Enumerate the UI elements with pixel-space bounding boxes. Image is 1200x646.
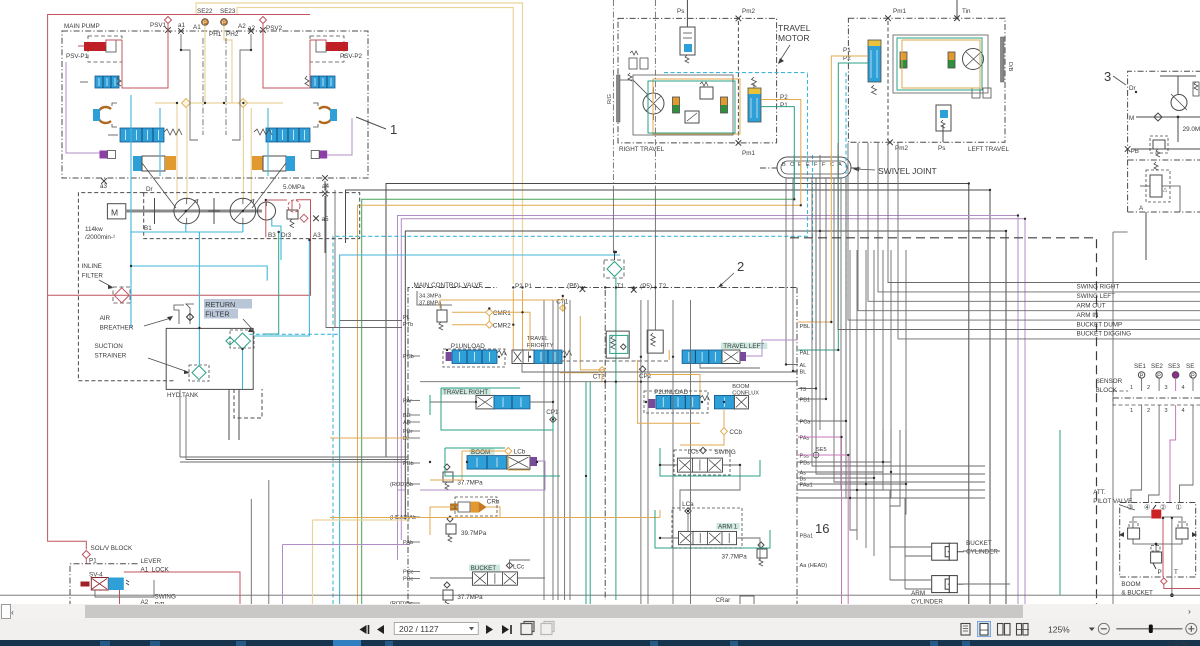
svg-text:29.0M: 29.0M [1183,126,1200,133]
Pm2 port top [736,8,756,140]
regulator right small valve [305,76,335,88]
nav last page [502,625,511,634]
mcv arm links [660,514,760,560]
mcv left port stubs [408,356,420,603]
solv red A1 line [120,572,241,604]
att P T ports [1158,569,1179,576]
svg-text:F: F [814,162,818,168]
bundle right fan lines [812,178,985,498]
svg-text:37.7MPa: 37.7MPa [457,480,483,487]
toolbar [0,619,1200,640]
svg-text:CCb: CCb [729,429,742,436]
svg-text:E: E [798,162,802,168]
svg-text:1: 1 [1130,408,1133,414]
main pump label [64,23,100,30]
PSV1 label [150,17,172,33]
svg-text:CMR1: CMR1 [493,310,511,317]
cyan big return rect [131,95,267,281]
svg-text:‹: ‹ [11,607,14,617]
regulator left small valve [80,76,121,88]
mcv dashed mid horizontal [420,361,797,382]
nav next page [486,625,493,634]
tank bottom drain dashed [229,389,262,440]
svg-text:37.7MPa: 37.7MPa [457,594,483,601]
travel motor label [778,23,811,64]
svg-text:SE23: SE23 [220,8,236,15]
svg-text:Aa (HEAD): Aa (HEAD) [800,563,828,569]
mcv travel right net [430,395,553,415]
svg-text:Ps: Ps [677,8,684,15]
svg-text:T2: T2 [659,283,667,290]
sensor numbers row1 [1130,385,1185,391]
svg-text:4: 4 [1182,408,1185,414]
rt travel speed valve blue [748,77,761,122]
pump center dashdot [203,38,226,135]
svg-text:PAL: PAL [800,351,810,357]
solv border [70,564,138,604]
suction strainer symbol [189,365,209,381]
nav prev page [377,625,384,634]
SV-4 valve [81,578,130,591]
svg-text:1:13 PM: 1:13 PM [1168,642,1189,646]
motor M box [107,204,125,219]
orange stub into mcv left [330,437,408,439]
servo link lines left [142,142,176,208]
solv label [91,545,133,552]
block3 M line [1129,113,1200,122]
relief small top left [437,305,447,330]
svg-text:BUCKET DUMP: BUCKET DUMP [1077,321,1123,328]
BOOM valve [467,448,537,470]
svg-text:BUCKET: BUCKET [471,565,497,572]
return filter symbol [226,330,254,349]
swivel joint label [853,166,937,176]
layout icon two-up cover [1016,624,1029,636]
svg-text:PTb: PTb [403,322,413,328]
rt tan inner box [653,79,740,134]
ARM1 valve [679,523,740,545]
wire yellow top feeds P1 P2 [196,3,523,284]
wire yellow pump riser left [177,103,187,200]
lt P1 P2 labels [843,47,851,62]
SE22 sensor [197,8,213,27]
pump bottom ports [100,175,330,190]
svg-text:34.3MPa: 34.3MPa [419,294,442,300]
page number box [394,623,478,635]
BOOM CONFLUX [714,384,759,409]
outer dashed boundary [78,193,173,381]
svg-text:37.8MPa: 37.8MPa [419,301,442,307]
svg-text:(P5): (P5) [640,283,652,290]
svg-text:37.7MPa: 37.7MPa [722,554,748,561]
purple riser near solv [283,545,411,605]
block3 dashdot mid [1128,159,1200,161]
pilot relief a5 [287,200,329,228]
CMR1 CMR2 [486,309,511,330]
svg-text:LCa: LCa [682,501,694,508]
block3 pump circle [1171,94,1187,111]
P2UNLOAD [648,389,709,409]
svg-text:A2: A2 [238,23,246,30]
yellow riser near solv [313,520,411,604]
svg-text:1: 1 [1130,385,1133,391]
SE4 sensor [1186,363,1196,379]
block3 relief [1150,136,1168,157]
att pilot valve label [1093,489,1135,510]
svg-text:PSV-P2: PSV-P2 [340,53,363,60]
TRAVEL PRIORITY [512,336,572,364]
lt port plate [1001,37,1014,82]
right purple box [311,151,327,159]
bus gray outer [346,190,991,604]
svg-text:SWING LEFT: SWING LEFT [1077,293,1116,300]
svg-text:16: 16 [815,521,829,536]
svg-text:125%: 125% [1048,625,1070,635]
lt accumulators [900,52,955,68]
svg-text:BR: BR [403,413,411,419]
svg-text:T: T [1174,569,1178,576]
rt center valve [685,111,699,123]
SE1 sensor [1134,363,1146,379]
svg-text:39.7MPa: 39.7MPa [461,530,487,537]
right main servo valve [254,128,310,142]
zoom slider [1116,625,1182,634]
svg-text:Pm1: Pm1 [893,8,906,15]
staircase to bucket cyl [883,430,905,556]
att circled numbers [1127,503,1182,512]
solv P1 [89,558,97,565]
svg-text:△: △ [1163,187,1168,193]
svg-text:PL: PL [403,315,410,321]
block3 dashed supply [790,238,1097,604]
svg-text:BUCKET: BUCKET [966,540,992,547]
svg-text:CMR2: CMR2 [493,322,511,329]
Dr B1 labels [144,184,321,239]
svg-text:a3: a3 [100,183,108,190]
block3 lower valve [1140,162,1180,212]
solv gray drain [95,580,154,597]
mcv teal boom frame [445,448,560,476]
rt upper center box [700,82,713,99]
svg-text:C: C [830,162,834,168]
svg-text:TRAVEL LEFT: TRAVEL LEFT [723,343,764,350]
block3 shaft [1160,76,1199,96]
svg-text:③: ③ [1127,503,1133,512]
travel feed green right [761,107,794,200]
sensor drop lines [205,26,232,104]
svg-text:BL: BL [800,370,807,376]
svg-text:4: 4 [1182,385,1185,391]
rt accumulator left [673,97,680,113]
label 3 [1104,69,1126,85]
SE2 sensor [1151,363,1163,379]
svg-text:Pm2: Pm2 [895,145,908,152]
svg-text:202 / 1127: 202 / 1127 [399,624,439,634]
block3 PB port [1125,146,1200,155]
cyan dashed into tank [249,333,340,335]
rt port plate [607,75,620,122]
svg-text:SWING: SWING [155,594,176,601]
svg-text:P: P [1158,569,1162,576]
svg-text:LEVER: LEVER [141,558,162,565]
SV-4 label [89,572,103,579]
svg-text:Dr: Dr [403,436,409,442]
label 2 leader [718,259,744,288]
label 1 leader [356,117,397,137]
37.7MPa boom [443,464,483,490]
dashed valve frames [443,349,742,548]
svg-text:PH2: PH2 [226,31,239,38]
svg-text:B3: B3 [268,232,276,239]
CRar [716,596,755,605]
svg-text:PCc: PCc [403,570,414,576]
svg-text:SE3: SE3 [1168,363,1180,370]
svg-text:FILTER: FILTER [205,310,229,319]
relief valve mid2 [647,330,663,353]
lt motor circle [963,49,984,70]
svg-text:Pm2: Pm2 [742,8,755,15]
att bottom valve [1151,546,1162,570]
svg-text:LCc: LCc [513,564,524,571]
mcv teal arm frame [655,510,770,548]
inline filter [82,263,130,303]
lt Tin port [954,0,971,21]
red pump drain lines [266,200,292,237]
bus green elbow [362,199,795,604]
wire yellow pump riser right [243,103,251,200]
svg-text:HYD.TANK: HYD.TANK [167,392,199,399]
svg-text:ARM IN: ARM IN [1077,312,1099,319]
svg-text:3: 3 [1104,69,1111,84]
svg-text:PB1: PB1 [800,398,811,404]
label 16 [815,521,829,536]
lt orange feed [798,56,868,322]
svg-text:PAa1: PAa1 [800,483,813,489]
bus purple elbow B [401,219,1025,604]
mcv orange lcb riser [430,451,530,480]
svg-text:PH1: PH1 [209,31,222,38]
svg-text:SENSOR: SENSOR [1096,378,1123,385]
left pump C element [93,103,117,127]
mcv center verticals gray [544,300,570,600]
mcv orange crb net [430,507,500,535]
svg-text:R/G: R/G [607,94,613,104]
cyan dashed pilot through [664,72,808,74]
svg-text:RETURN: RETURN [205,300,235,309]
svg-text:114kw: 114kw [85,226,103,233]
right pump C element [313,103,337,127]
left main servo valve [108,128,182,142]
staircase inner verticals [850,478,874,556]
svg-text:PBL: PBL [800,324,811,330]
boom bucket label [1121,581,1153,597]
svg-text:FILTER: FILTER [82,273,104,280]
svg-text:ARM: ARM [911,590,925,597]
att right reducing valve [1176,522,1197,539]
svg-text:3: 3 [1165,385,1168,391]
drive shaft [126,198,262,224]
svg-text:SE: SE [1186,363,1194,370]
TRAVEL LEFT [682,343,767,364]
svg-text:B: B [782,162,786,168]
right travel border [618,18,777,142]
bus orange elbow [358,205,801,604]
svg-text:a1: a1 [178,22,186,29]
mcv teal swing frame [660,448,760,476]
layout icon two-up [998,624,1011,636]
svg-text:Pm1: Pm1 [742,150,755,157]
att P red line [1161,518,1200,589]
arm cylinder [911,576,964,606]
page back icon [521,622,534,635]
svg-text:Dr: Dr [146,186,153,193]
svg-text:①: ① [1176,503,1182,512]
servo link lines right [252,142,286,208]
T1 filter [604,251,624,278]
wire red left border [48,15,310,550]
svg-text:PBr: PBr [403,429,412,435]
block3 border [1128,71,1200,212]
att pilot border [1120,503,1196,578]
left purple box [100,151,116,159]
pump circle 1 [174,198,200,224]
svg-text:BOOM: BOOM [732,384,749,390]
svg-text:LCb: LCb [514,449,526,456]
scrollbar strip [0,604,1200,619]
mcv orange pilot CT2 net [560,316,605,382]
svg-text:PBs: PBs [800,461,810,467]
left travel border [848,18,1005,142]
mcv right ports [800,324,828,611]
svg-text:/2000min-¹: /2000min-¹ [85,234,115,241]
cyan dashed second vertical [812,155,814,340]
layout icon highlighted [978,622,991,637]
zoom in circle [1186,623,1197,634]
left actuator pair [133,156,176,171]
svg-text:D/B: D/B [1007,62,1013,72]
svg-text:AIR: AIR [100,315,111,322]
svg-text:A3: A3 [313,232,321,239]
suction strainer label [95,343,191,374]
sensor drop lines [1142,378,1193,391]
bus gray inner [405,231,1006,604]
lt springs boxes [972,88,991,98]
svg-text:CRb: CRb [487,499,500,506]
svg-text:2: 2 [1147,385,1150,391]
pump purple pilot lines [66,62,352,155]
lt counterbalance [936,105,951,131]
lt Pm2 bottom [887,140,908,153]
green vertical right [1059,430,1061,595]
att left reducing valve [1119,522,1140,539]
bus gray upper [386,184,969,605]
37.7MPa bucket [443,582,483,608]
mcv orange pilot net [440,296,563,350]
svg-text:B1: B1 [144,225,152,232]
SE23 sensor [220,8,236,27]
rt brake line zigzag [620,73,648,95]
svg-text:F: F [822,162,826,168]
svg-text:TRAVEL: TRAVEL [778,23,811,33]
svg-text:SE2: SE2 [1151,363,1163,370]
mcv purple net boom [398,461,546,490]
svg-text:AL: AL [800,363,807,369]
air breather symbol [174,304,194,324]
svg-text:PSV1: PSV1 [150,22,167,29]
wire red inline-filter line [48,200,311,296]
rt gray inner rect [633,75,733,135]
travel feed orange right [761,100,801,206]
svg-text:CRar: CRar [716,597,731,604]
svg-text:Ps: Ps [938,145,945,152]
lt travel speed valve blue [868,40,881,95]
staircase port runs [797,250,906,498]
swivel dashdot border [760,167,862,169]
mcv travel left purple stub [746,340,797,356]
swivel joint stadium [777,157,851,178]
gear pump small [258,202,276,220]
svg-text:PAr: PAr [403,398,412,404]
nav first page [360,625,369,634]
svg-text:BOOM: BOOM [471,449,490,456]
bus cyan solid elbow [340,255,620,604]
block3 gray left vert [1113,232,1128,604]
bottom long line [0,594,1200,596]
svg-text:M: M [111,208,118,218]
center dashdot vertical [604,290,606,600]
relief valve mid1 [606,331,629,358]
svg-text:PRIORITY: PRIORITY [527,343,554,349]
hydraulic tank [166,328,253,399]
svg-text:AR: AR [403,420,411,426]
37.7MPa arm [722,542,768,566]
mcv swing links [660,465,740,511]
lt inner boxes [893,35,988,93]
svg-text:BLOCK: BLOCK [1096,387,1118,394]
block3 29MPa [1178,117,1200,142]
svg-text:P2 P1: P2 P1 [515,283,533,290]
cyan suction B1 line [186,232,243,328]
T2 gray drop [613,0,655,330]
horizontal gray bundle left [180,390,408,462]
left magenta pair [798,437,848,604]
svg-text:PCb: PCb [403,354,414,360]
svg-text:STRAINER: STRAINER [95,353,127,360]
tank internal lines [199,328,242,389]
tank outlet gray pair [326,184,335,329]
svg-text:SWIVEL JOINT: SWIVEL JOINT [878,166,937,176]
svg-text:SOL/V BLOCK: SOL/V BLOCK [91,545,133,552]
mcv top border [408,288,797,316]
mcv right border [796,288,798,605]
att internal links [1133,517,1182,552]
BUCKET valve [469,562,524,585]
svg-text:ATT.: ATT. [1093,489,1106,496]
svg-text:A1: A1 [193,24,201,31]
T1 teal drop [615,278,617,600]
arm cyl lines [890,580,1010,589]
SWING valve [677,447,735,472]
right travel label [619,146,665,153]
main pump block border [62,31,368,178]
cyan return drop right [254,240,309,336]
svg-text:1: 1 [390,122,397,137]
svg-text:MAIN PUMP: MAIN PUMP [64,23,100,30]
svg-text:LEFT TRAVEL: LEFT TRAVEL [968,146,1009,153]
bundle gray verticals below swivel [786,178,846,421]
pump circle 2 [230,198,256,224]
svg-text:2: 2 [1147,408,1150,414]
